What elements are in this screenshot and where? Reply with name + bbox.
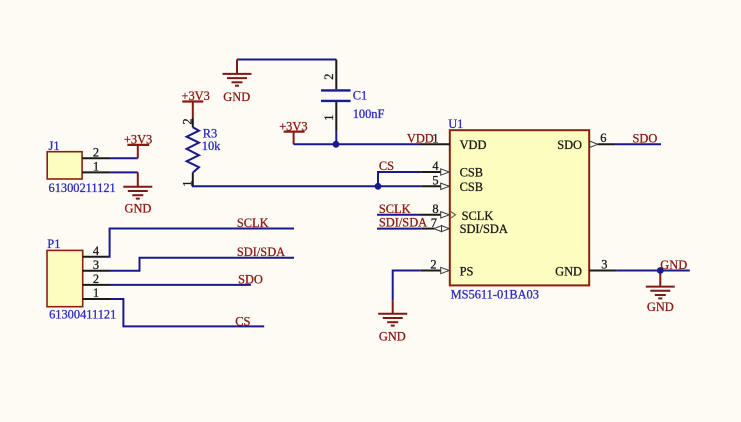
wire CS branch up to pin 4: [378, 172, 421, 186]
ground GND (top): [223, 60, 252, 105]
U1 pin 5 CSB: [421, 174, 449, 190]
svg-text:J1: J1: [49, 139, 60, 153]
svg-text:SDO: SDO: [633, 132, 658, 146]
wire net SCLK (from P1 pin4): [108, 229, 295, 257]
svg-text:1: 1: [432, 131, 438, 145]
svg-text:SDI/SDA: SDI/SDA: [379, 216, 427, 230]
svg-text:4: 4: [93, 244, 99, 258]
wire net GND (right): [617, 270, 690, 272]
wire C1 bottom to VDD rail: [335, 132, 337, 145]
U1 pin 4 CSB: [421, 159, 449, 175]
wire net CS (from P1 pin1): [111, 299, 265, 326]
svg-text:U1: U1: [448, 117, 463, 131]
svg-text:SDO: SDO: [238, 273, 263, 287]
U1 pin 7 SDI/SDA (bidirectional): [421, 216, 449, 232]
svg-text:1: 1: [322, 115, 336, 121]
wire net PS to GND: [393, 271, 421, 301]
J1 pin 2: [82, 145, 110, 159]
svg-text:2: 2: [93, 272, 99, 286]
power +3V3 (at J1): [124, 133, 152, 159]
power +3V3 (at VDD rail): [279, 119, 307, 144]
svg-text:8: 8: [432, 202, 438, 216]
svg-text:2: 2: [93, 145, 99, 159]
svg-text:GND: GND: [223, 90, 250, 104]
svg-text:5: 5: [432, 174, 438, 188]
svg-text:PS: PS: [460, 265, 474, 279]
capacitor C1: [321, 88, 384, 121]
svg-text:61300411121: 61300411121: [49, 307, 116, 321]
svg-text:GND: GND: [660, 258, 687, 272]
wire net SCLK (at U1): [377, 214, 421, 216]
svg-text:C1: C1: [353, 88, 367, 102]
svg-text:SDO: SDO: [557, 138, 582, 152]
ground GND (right): [646, 271, 675, 315]
P1 pin 4: [83, 244, 108, 258]
svg-text:2: 2: [430, 258, 436, 272]
U1 pin 8 SCLK (clock): [421, 202, 456, 218]
svg-text:2: 2: [322, 73, 336, 79]
svg-text:7: 7: [431, 216, 437, 230]
svg-text:SCLK: SCLK: [379, 202, 411, 216]
svg-text:CSB: CSB: [460, 166, 483, 180]
svg-text:1: 1: [93, 160, 99, 174]
P1 pin 2: [83, 272, 110, 286]
junction node at right GND: [657, 267, 664, 274]
connector J1: [47, 139, 116, 195]
ground GND (at PS): [378, 300, 407, 344]
R3 pin 1 (bottom): [180, 173, 194, 187]
svg-text:4: 4: [432, 159, 438, 173]
svg-text:CSB: CSB: [460, 180, 483, 194]
svg-text:VDD: VDD: [460, 138, 487, 152]
junction node at C1/VDD rail: [333, 141, 340, 148]
svg-text:61300211121: 61300211121: [49, 181, 116, 195]
svg-text:10k: 10k: [202, 139, 221, 153]
junction node at CS branch: [375, 183, 382, 190]
svg-text:6: 6: [600, 131, 606, 145]
svg-text:1: 1: [93, 286, 99, 300]
U1 pin 2 PS: [421, 258, 449, 274]
wire net GND (top, to C1 pin2): [237, 59, 336, 61]
svg-text:GND: GND: [379, 330, 406, 344]
svg-text:CS: CS: [379, 159, 394, 173]
svg-text:SDI/SDA: SDI/SDA: [460, 222, 508, 236]
svg-text:GND: GND: [125, 202, 152, 216]
connector P1: [47, 237, 116, 322]
wire net CS (R3 bottom to U1 CSB pins): [193, 185, 421, 186]
P1 pin 3: [83, 258, 110, 272]
P1 pin 1: [83, 286, 111, 300]
svg-text:2: 2: [180, 118, 194, 124]
svg-text:CS: CS: [235, 314, 250, 328]
wire net SDI/SDA (at U1): [377, 228, 421, 230]
wire net VDD: [294, 143, 420, 145]
U1 pin 3 GND: [589, 257, 616, 271]
wire J1 pin2 to +3V3: [110, 157, 138, 159]
wire net SDI/SDA (from P1 pin3): [110, 258, 295, 271]
J1 pin 1: [82, 160, 110, 174]
svg-text:100nF: 100nF: [353, 107, 385, 121]
ground GND (at J1): [123, 172, 152, 215]
svg-text:3: 3: [93, 258, 99, 272]
wire net SDO (from P1 pin2): [110, 284, 251, 286]
svg-text:SDI/SDA: SDI/SDA: [237, 245, 285, 259]
U1 pin 1 VDD: [420, 131, 450, 145]
IC U1 MS5611-01BA03: [448, 117, 589, 301]
R3 pin 2 (top): [180, 117, 194, 127]
C1 pin 1 (bottom): [322, 102, 336, 132]
svg-text:P1: P1: [47, 237, 60, 251]
svg-text:SCLK: SCLK: [462, 209, 494, 223]
wire J1 pin1 to GND: [110, 171, 138, 173]
svg-text:MS5611-01BA03: MS5611-01BA03: [451, 288, 539, 302]
svg-text:3: 3: [601, 257, 607, 271]
resistor R3: [187, 126, 222, 172]
svg-text:GND: GND: [555, 265, 582, 279]
wire net SDO (right): [616, 143, 661, 145]
U1 pin 6 SDO: [590, 131, 616, 148]
svg-text:SCLK: SCLK: [237, 216, 269, 230]
svg-text:GND: GND: [647, 300, 674, 314]
C1 pin 2 (top): [322, 60, 336, 90]
power +3V3 (at R3): [182, 89, 210, 117]
